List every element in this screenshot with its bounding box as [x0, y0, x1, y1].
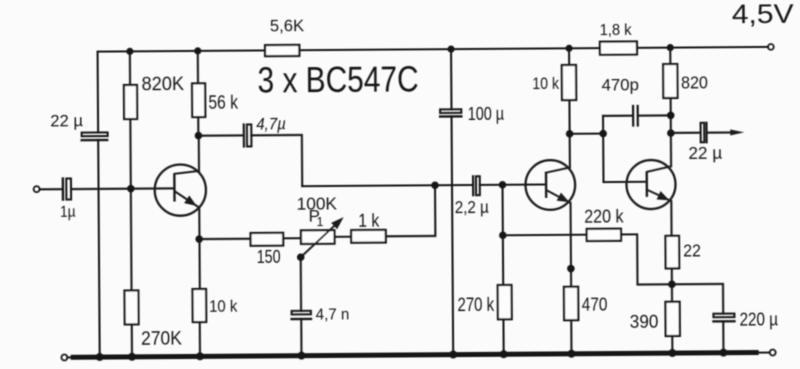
svg-text:10 k: 10 k — [209, 296, 238, 315]
svg-text:270 k: 270 k — [457, 295, 494, 316]
svg-text:390: 390 — [630, 311, 659, 332]
svg-text:220 µ: 220 µ — [739, 310, 778, 330]
svg-text:270K: 270K — [141, 327, 182, 349]
svg-text:1 k: 1 k — [358, 210, 380, 231]
svg-text:820K: 820K — [142, 73, 185, 95]
svg-text:4,7µ: 4,7µ — [256, 114, 286, 133]
svg-text:22 µ: 22 µ — [688, 143, 722, 163]
svg-text:220 k: 220 k — [584, 206, 624, 226]
svg-text:470: 470 — [582, 293, 608, 314]
svg-text:150: 150 — [257, 247, 281, 267]
svg-text:22: 22 — [683, 241, 701, 261]
svg-text:56 k: 56 k — [208, 93, 238, 114]
svg-text:4,5V: 4,5V — [732, 0, 794, 29]
svg-text:22 µ: 22 µ — [50, 111, 83, 130]
svg-text:2,2 µ: 2,2 µ — [455, 197, 489, 217]
svg-text:470p: 470p — [601, 76, 639, 95]
svg-text:1µ: 1µ — [60, 204, 76, 221]
svg-text:1,8 k: 1,8 k — [600, 22, 633, 39]
svg-text:100 µ: 100 µ — [468, 104, 504, 124]
svg-text:820: 820 — [681, 72, 708, 92]
svg-text:1: 1 — [317, 215, 324, 229]
svg-text:5,6K: 5,6K — [270, 17, 304, 35]
svg-text:3 x BC547C: 3 x BC547C — [257, 59, 418, 101]
svg-text:10 k: 10 k — [532, 75, 559, 93]
svg-text:4,7 n: 4,7 n — [316, 307, 350, 324]
